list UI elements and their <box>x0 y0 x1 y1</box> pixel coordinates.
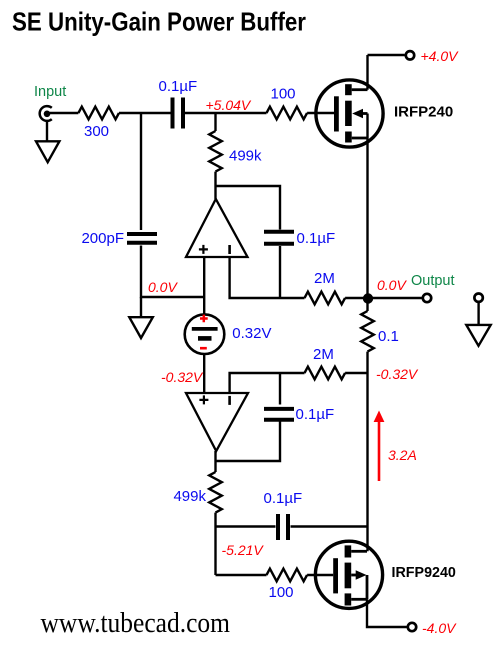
svg-text:200pF: 200pF <box>81 230 124 247</box>
svg-text:+5.04V: +5.04V <box>206 97 252 113</box>
svg-text:-5.21V: -5.21V <box>222 542 265 558</box>
svg-text:499k: 499k <box>173 488 206 505</box>
svg-text:Input: Input <box>34 84 66 100</box>
svg-text:0.0V: 0.0V <box>377 277 407 293</box>
svg-text:2M: 2M <box>314 270 335 287</box>
svg-text:0.0V: 0.0V <box>148 279 178 295</box>
svg-text:-4.0V: -4.0V <box>422 620 457 636</box>
svg-text:Output: Output <box>411 273 455 289</box>
svg-text:IRFP9240: IRFP9240 <box>392 565 456 581</box>
svg-text:499k: 499k <box>229 148 262 165</box>
svg-text:0.1µF: 0.1µF <box>264 490 303 507</box>
svg-text:300: 300 <box>84 123 109 140</box>
svg-text:3.2A: 3.2A <box>388 447 417 463</box>
svg-text:-0.32V: -0.32V <box>376 366 419 382</box>
svg-text:0.32V: 0.32V <box>232 325 271 342</box>
svg-text:100: 100 <box>269 584 294 601</box>
svg-text:IRFP240: IRFP240 <box>394 104 453 121</box>
svg-text:0.1: 0.1 <box>378 328 399 345</box>
svg-text:-0.32V: -0.32V <box>161 369 204 385</box>
svg-text:SE Unity-Gain Power Buffer: SE Unity-Gain Power Buffer <box>12 8 306 36</box>
svg-text:0.1µF: 0.1µF <box>297 230 336 247</box>
svg-text:www.tubecad.com: www.tubecad.com <box>41 608 231 639</box>
svg-text:100: 100 <box>271 86 296 103</box>
svg-text:2M: 2M <box>313 346 334 363</box>
svg-text:+4.0V: +4.0V <box>421 48 460 64</box>
svg-text:0.1µF: 0.1µF <box>296 406 335 423</box>
svg-text:0.1µF: 0.1µF <box>159 78 198 95</box>
